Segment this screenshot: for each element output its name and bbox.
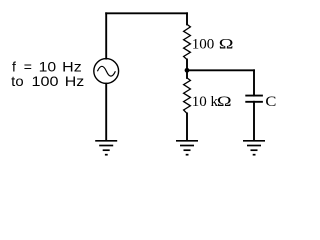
node A junction dot (185, 68, 190, 73)
wire vertical R1 top lead (186, 13, 188, 24)
label f = 10 Hz (12, 58, 82, 74)
svg-text:Ω: Ω (217, 92, 232, 109)
wire node A down to R2 (186, 70, 188, 78)
wire R1 bottom lead to node A (186, 60, 188, 71)
ground symbol under capacitor (243, 141, 265, 155)
wire node A horizontal to capacitor (187, 69, 254, 71)
ground symbol under source (95, 141, 117, 155)
AC source V1 sine wave (97, 66, 115, 76)
wire vertical source top lead (105, 13, 107, 58)
AC source V1 circle (94, 59, 119, 84)
capacitor C plates (245, 96, 263, 102)
wire source bottom lead to ground (105, 84, 107, 140)
svg-text:Hz: Hz (65, 73, 85, 89)
wire capacitor top lead (253, 70, 255, 95)
wire capacitor bottom lead to ground (253, 102, 255, 140)
svg-text:Ω: Ω (219, 35, 234, 52)
resistor R2 zigzag 10 kohm (184, 78, 191, 114)
label to 100 Hz (11, 73, 84, 89)
svg-text:10 k: 10 k (192, 94, 219, 110)
ground symbol under resistor R2 (176, 141, 198, 155)
wire R2 bottom lead to ground (186, 113, 188, 140)
wire top horizontal from source to R1 (106, 12, 187, 14)
svg-text:100: 100 (192, 37, 215, 53)
svg-text:100: 100 (32, 73, 59, 89)
resistor R1 zigzag 100 ohm (184, 24, 191, 59)
svg-text:to: to (11, 73, 24, 89)
svg-text:C: C (265, 94, 276, 110)
